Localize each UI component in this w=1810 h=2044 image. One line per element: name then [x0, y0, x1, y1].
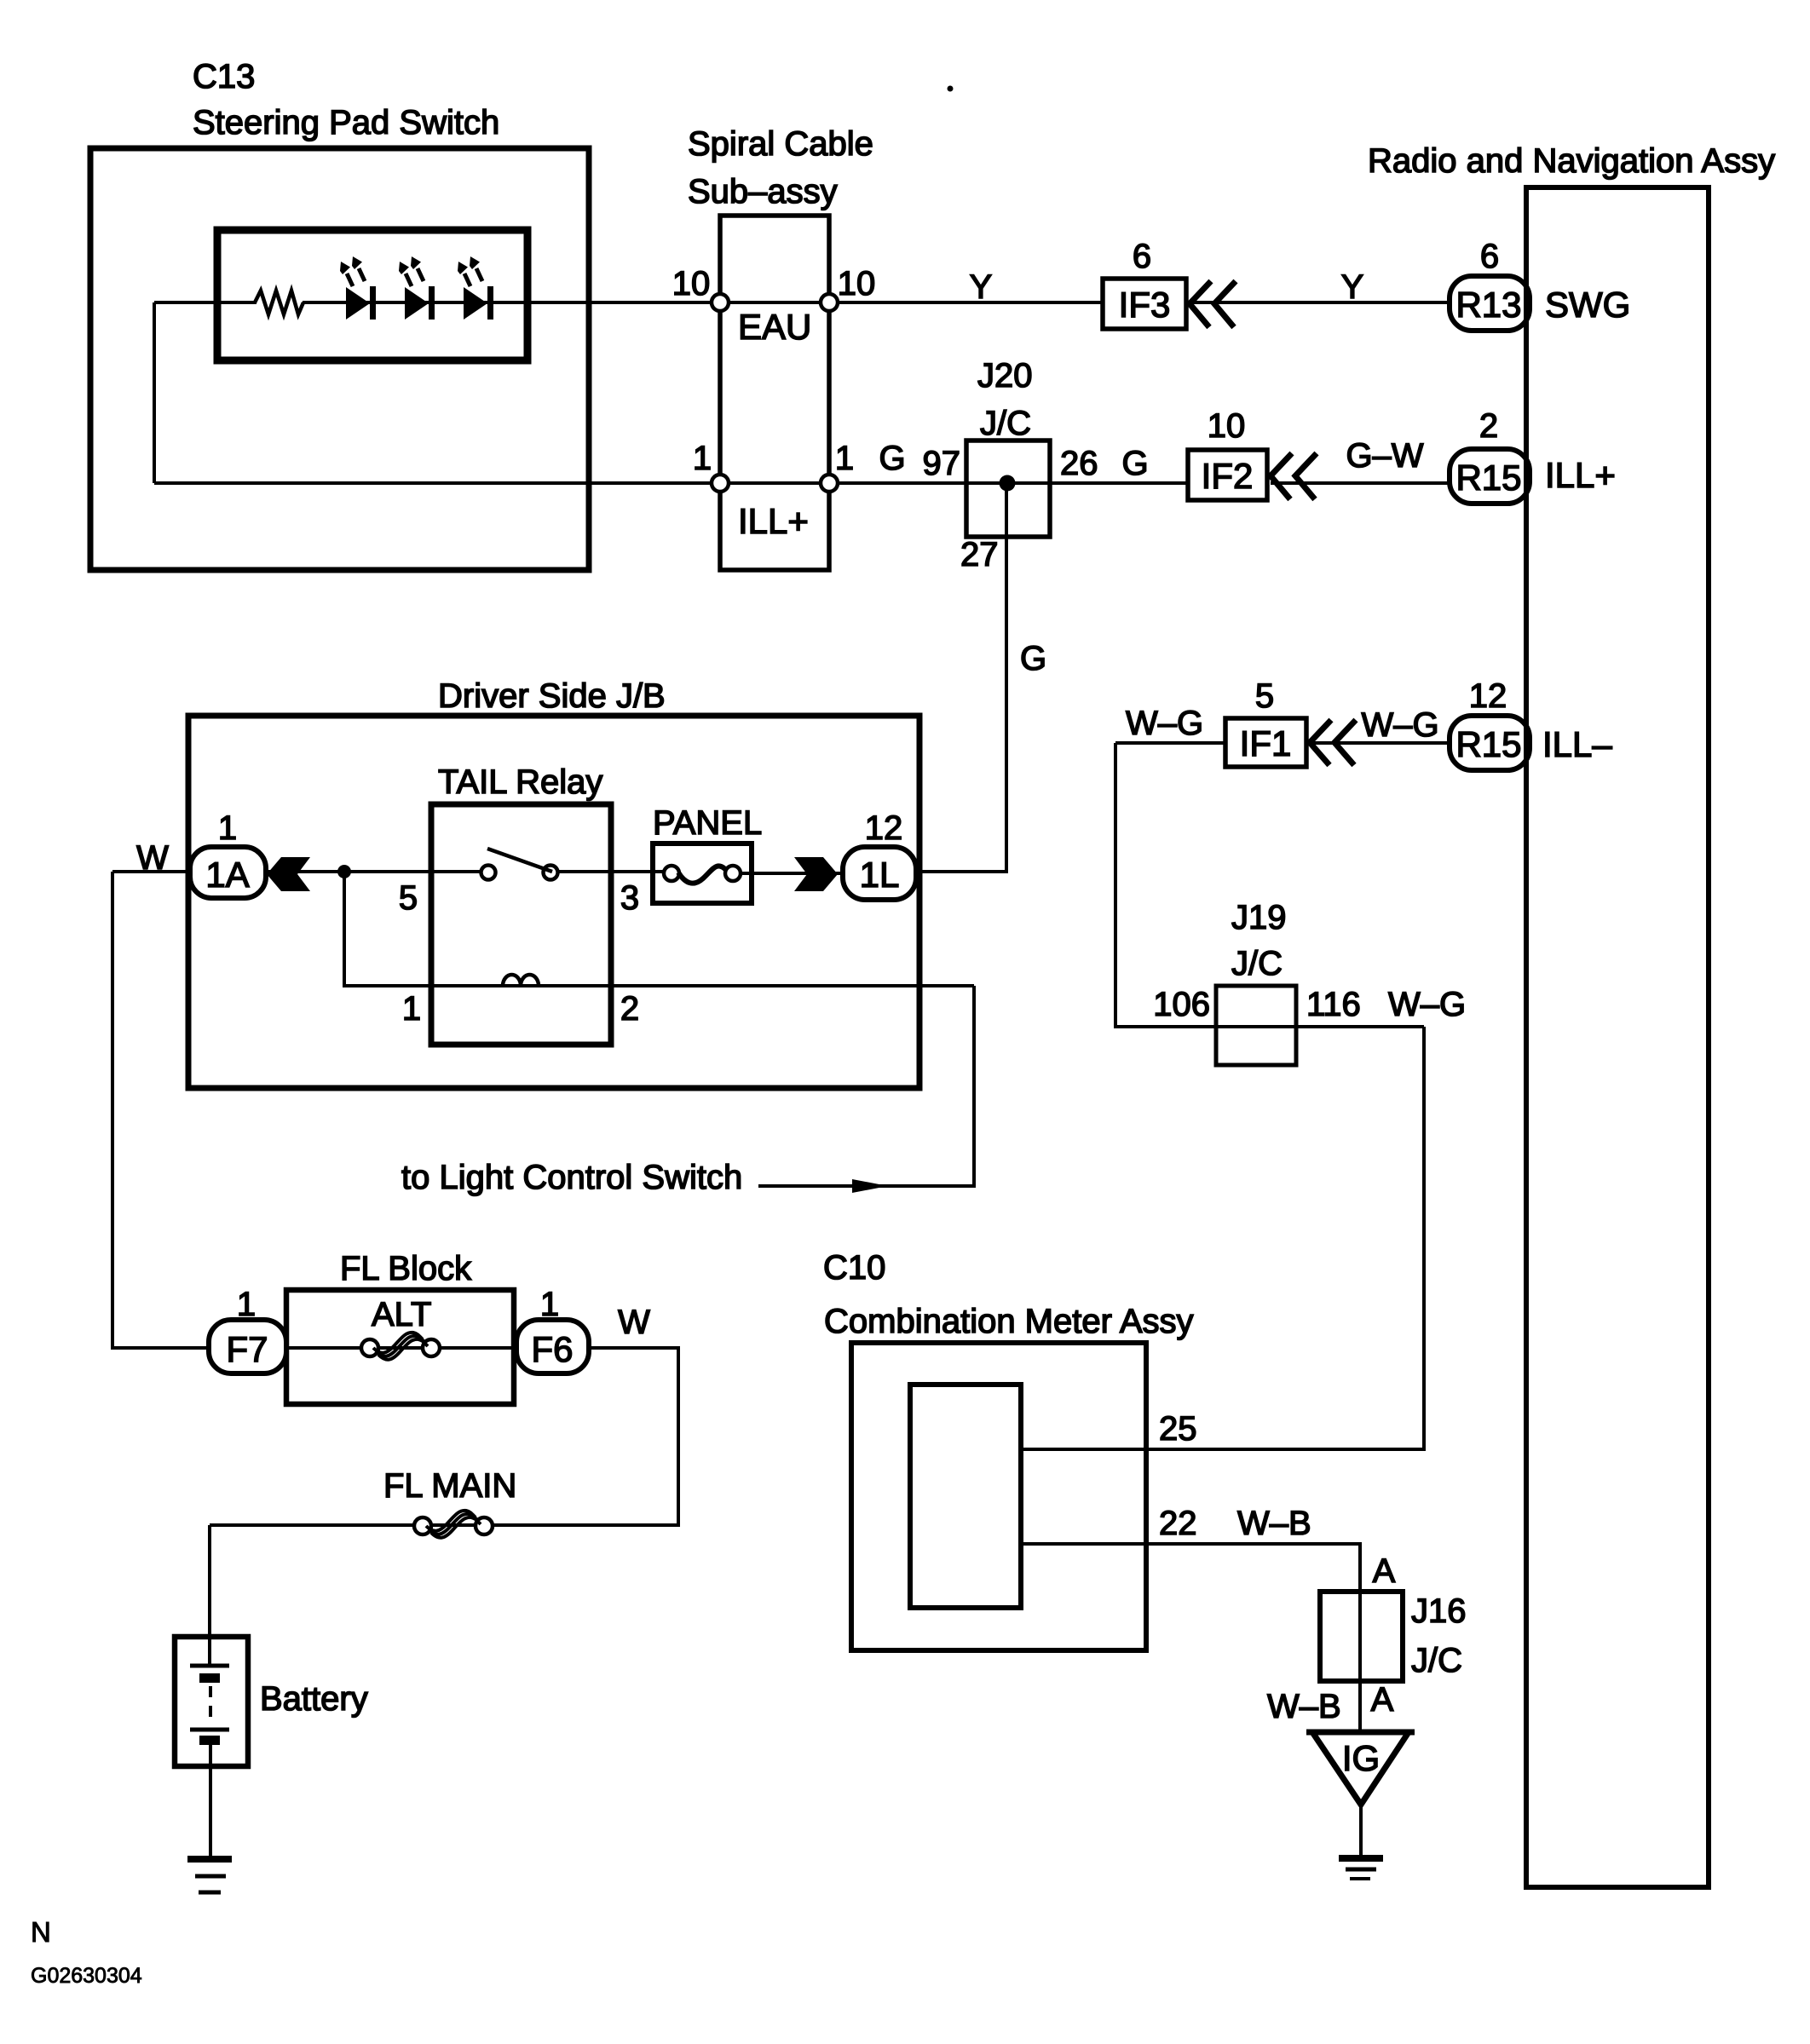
- wire from IG triangle to ground: [1359, 1805, 1363, 1858]
- svg-text:G: G: [879, 440, 905, 477]
- combination meter assy outer box: [851, 1343, 1146, 1650]
- junction dot under 1A feed: [337, 865, 351, 878]
- terminal circle EAU left: [712, 294, 729, 311]
- arrowhead on light control switch wire (pointing right): [852, 1179, 888, 1193]
- battery plate short (-) top: [199, 1673, 220, 1683]
- connector R15 (ILL-): [1450, 716, 1530, 770]
- svg-text:Driver Side J/B: Driver Side J/B: [438, 677, 666, 715]
- relay switch blade: [487, 849, 552, 872]
- wire from PANEL to 1L: [741, 872, 843, 875]
- connector F7: [209, 1320, 286, 1373]
- connector F6: [516, 1320, 589, 1373]
- wire ILL- row from IF1 to R15: [1310, 741, 1450, 745]
- svg-text:1L: 1L: [860, 855, 900, 895]
- terminal circle EAU right: [821, 294, 838, 311]
- connector 1L: [843, 847, 916, 900]
- svg-text:1: 1: [218, 809, 237, 847]
- svg-text:W–G: W–G: [1126, 705, 1203, 742]
- wire through FL block: [286, 1346, 516, 1350]
- wire C13 left return vertical: [153, 302, 156, 483]
- fuse PANEL element: [664, 866, 679, 881]
- svg-text:J/C: J/C: [1231, 945, 1283, 982]
- terminal circle ILL+ left: [712, 475, 729, 492]
- battery dashed cell link: [209, 1686, 212, 1724]
- svg-text:R13: R13: [1455, 285, 1521, 325]
- svg-text:10: 10: [672, 265, 711, 302]
- svg-text:G–W: G–W: [1346, 437, 1423, 475]
- svg-text:TAIL Relay: TAIL Relay: [438, 763, 602, 801]
- arrow into 1A (pointing left): [267, 857, 310, 891]
- svg-text:116: 116: [1306, 986, 1361, 1023]
- connector arrows after IF1: [1310, 720, 1331, 765]
- steering pad switch C13 outer box: [90, 148, 589, 570]
- svg-text:ALT: ALT: [372, 1296, 431, 1333]
- connector arrows after IF2: [1271, 453, 1292, 499]
- junction dot inside J20: [1000, 475, 1016, 492]
- svg-text:IF1: IF1: [1240, 723, 1292, 763]
- combination meter inner box: [910, 1385, 1021, 1608]
- svg-text:SWG: SWG: [1545, 285, 1630, 325]
- svg-text:R15: R15: [1455, 724, 1521, 764]
- svg-text:Combination Meter Assy: Combination Meter Assy: [824, 1303, 1194, 1340]
- svg-text:G: G: [1020, 640, 1046, 677]
- battery box: [175, 1637, 248, 1766]
- svg-text:2: 2: [620, 990, 639, 1028]
- svg-text:J20: J20: [977, 357, 1033, 394]
- wire from W vertical into 1A: [112, 870, 190, 873]
- svg-text:W–B: W–B: [1267, 1688, 1341, 1725]
- spiral cable sub-assy box: [720, 216, 829, 570]
- junction connector J20 box: [966, 440, 1050, 537]
- arrow into 1L (pointing right): [794, 857, 838, 891]
- wire from switch to PANEL fuse: [557, 870, 672, 873]
- ground symbol IG triangle: [1312, 1732, 1409, 1805]
- wire through J16: [1358, 1592, 1362, 1681]
- connector R15 (ILL+): [1450, 449, 1530, 504]
- svg-text:Steering Pad Switch: Steering Pad Switch: [193, 104, 499, 141]
- svg-text:12: 12: [1469, 677, 1507, 715]
- wire from FL MAIN down to battery: [208, 1525, 211, 1664]
- svg-text:1: 1: [693, 440, 712, 477]
- svg-text:N: N: [31, 1916, 51, 1948]
- svg-text:G: G: [1121, 445, 1148, 482]
- connector IF2: [1188, 450, 1267, 500]
- svg-text:J/C: J/C: [1411, 1642, 1462, 1679]
- svg-text:G02630304: G02630304: [31, 1964, 142, 1988]
- wire pin22 W-B to J16: [1021, 1544, 1360, 1732]
- connector 1A: [190, 847, 266, 898]
- steering pad switch inner illumination box: [217, 230, 527, 360]
- ground (battery): [187, 1856, 232, 1863]
- svg-text:J19: J19: [1231, 899, 1287, 936]
- connector R13: [1450, 276, 1530, 331]
- driver side J/B box: [188, 716, 919, 1088]
- svg-text:3: 3: [620, 879, 639, 917]
- svg-text:W: W: [618, 1304, 650, 1341]
- wire relay coil branch from junction dot: [344, 872, 974, 986]
- svg-text:FL MAIN: FL MAIN: [383, 1467, 516, 1505]
- wire from 1A to TAIL relay: [266, 870, 483, 873]
- svg-text:F7: F7: [226, 1329, 268, 1369]
- svg-text:25: 25: [1159, 1410, 1197, 1448]
- svg-text:Spiral Cable: Spiral Cable: [688, 125, 873, 163]
- terminal circle ILL+ right: [821, 475, 838, 492]
- wire ILL- row left stub into IF1: [1115, 741, 1225, 745]
- svg-text:97: 97: [923, 445, 961, 482]
- svg-text:R15: R15: [1455, 458, 1521, 498]
- svg-text:Y: Y: [970, 268, 993, 306]
- svg-text:26: 26: [1060, 445, 1098, 482]
- svg-text:Y: Y: [1341, 268, 1364, 306]
- TAIL relay box: [431, 804, 611, 1045]
- junction connector J16 box: [1320, 1592, 1403, 1681]
- battery plate short (-) bottom: [199, 1736, 220, 1745]
- connector IF3: [1103, 279, 1186, 329]
- svg-text:Sub–assy: Sub–assy: [688, 173, 838, 210]
- svg-text:C13: C13: [193, 58, 255, 95]
- svg-text:IF3: IF3: [1119, 285, 1171, 325]
- svg-text:10: 10: [1208, 407, 1246, 445]
- wire G from J20 down to 1L: [916, 483, 1006, 872]
- FL block box: [286, 1290, 514, 1404]
- wire W-G from J19 down to combination meter pin 25: [1021, 1027, 1424, 1449]
- relay switch left contact: [481, 866, 496, 880]
- svg-text:PANEL: PANEL: [653, 804, 762, 842]
- svg-text:W–B: W–B: [1237, 1505, 1311, 1542]
- svg-text:J/C: J/C: [980, 405, 1031, 442]
- svg-text:5: 5: [1255, 677, 1274, 715]
- wire W from 1A down to F7: [112, 872, 209, 1348]
- svg-text:Battery: Battery: [260, 1680, 368, 1718]
- svg-text:A: A: [1371, 1681, 1394, 1719]
- wire from battery to ground: [209, 1745, 212, 1858]
- svg-text:1: 1: [402, 990, 421, 1028]
- svg-text:W–G: W–G: [1388, 986, 1466, 1023]
- battery plate long (+) bottom: [190, 1728, 229, 1732]
- svg-text:2: 2: [1479, 407, 1498, 445]
- svg-text:10: 10: [838, 265, 876, 302]
- stray dot artifact top center: [948, 86, 954, 92]
- ground (IG): [1339, 1855, 1383, 1862]
- junction connector J19 box: [1216, 986, 1296, 1065]
- svg-text:1A: 1A: [205, 855, 249, 895]
- LED D1: [340, 256, 376, 320]
- svg-text:1: 1: [835, 440, 854, 477]
- svg-text:FL Block: FL Block: [340, 1250, 472, 1287]
- relay switch right contact: [544, 866, 558, 880]
- svg-text:F6: F6: [531, 1329, 573, 1369]
- wire through J19: [1216, 1025, 1424, 1028]
- svg-text:ILL+: ILL+: [738, 501, 809, 541]
- battery plate long (+) top: [190, 1664, 229, 1668]
- svg-text:IG: IG: [1342, 1738, 1380, 1778]
- svg-text:A: A: [1373, 1552, 1396, 1590]
- svg-text:ILL–: ILL–: [1542, 724, 1612, 764]
- connector IF1: [1225, 718, 1306, 767]
- fuse PANEL box: [653, 844, 752, 903]
- svg-text:12: 12: [865, 809, 903, 847]
- svg-text:22: 22: [1159, 1505, 1197, 1542]
- svg-text:to Light Control Switch: to Light Control Switch: [401, 1159, 742, 1196]
- wire ILL+ row from IF2 to R15: [1271, 481, 1450, 485]
- LED D2: [399, 256, 435, 320]
- svg-text:W–G: W–G: [1361, 706, 1438, 744]
- svg-text:IF2: IF2: [1202, 456, 1254, 496]
- radio and navigation assy box: [1526, 187, 1709, 1887]
- wire bottom row inside C13 (ILL+ line y=567): [154, 481, 1188, 485]
- wire W-G down from IF1 row to J19: [1115, 743, 1424, 1027]
- svg-text:27: 27: [960, 536, 999, 573]
- svg-text:Radio and Navigation Assy: Radio and Navigation Assy: [1368, 142, 1775, 180]
- svg-text:106: 106: [1153, 986, 1210, 1023]
- wire down to light control switch line: [758, 986, 974, 1186]
- wire SWG row from IF3 to R13: [1190, 301, 1450, 304]
- resistor (LED series resistor): [255, 291, 303, 314]
- connector arrows after IF3: [1190, 281, 1211, 327]
- svg-text:5: 5: [399, 879, 418, 917]
- svg-text:ILL+: ILL+: [1545, 455, 1616, 495]
- LED D3: [458, 256, 493, 320]
- svg-text:J16: J16: [1411, 1592, 1467, 1630]
- wire top row inside C13 (SWG/EAU line y=355): [154, 301, 257, 304]
- fusible link FL MAIN element: [414, 1517, 431, 1534]
- svg-text:C10: C10: [823, 1249, 885, 1287]
- wire from F6 down to FL MAIN row: [210, 1348, 678, 1525]
- svg-text:6: 6: [1480, 238, 1499, 275]
- fusible link ALT element: [361, 1339, 378, 1356]
- svg-text:EAU: EAU: [738, 307, 811, 347]
- relay coil: [503, 975, 539, 986]
- svg-text:6: 6: [1133, 238, 1151, 275]
